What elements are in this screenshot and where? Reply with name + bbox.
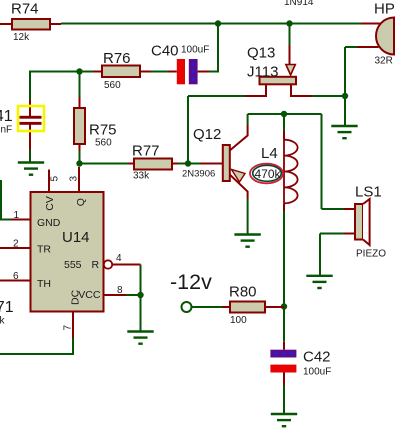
- svg-text:470k: 470k: [255, 167, 282, 181]
- svg-text:100uF: 100uF: [303, 367, 331, 378]
- svg-text:VCC: VCC: [78, 289, 101, 301]
- svg-text:Q: Q: [75, 198, 87, 206]
- svg-text:R76: R76: [103, 50, 131, 67]
- svg-text:R80: R80: [229, 284, 257, 301]
- svg-text:CV: CV: [44, 196, 56, 211]
- svg-text:R77: R77: [132, 143, 160, 160]
- svg-text:12k: 12k: [13, 32, 30, 43]
- svg-text:HP: HP: [374, 1, 395, 18]
- svg-text:3: 3: [69, 176, 80, 182]
- svg-text:TR: TR: [37, 244, 51, 256]
- svg-text:2: 2: [13, 239, 19, 250]
- svg-text:R75: R75: [89, 122, 117, 139]
- svg-text:2N3906: 2N3906: [182, 169, 215, 180]
- svg-text:560: 560: [95, 138, 112, 149]
- svg-text:1: 1: [14, 210, 20, 221]
- svg-text:nF: nF: [1, 125, 13, 136]
- svg-text:GND: GND: [37, 217, 61, 229]
- svg-text:4: 4: [116, 253, 122, 264]
- svg-text:J113: J113: [247, 64, 278, 81]
- svg-text:PIEZO: PIEZO: [356, 249, 386, 260]
- svg-text:C41: C41: [0, 108, 13, 125]
- svg-text:TH: TH: [37, 278, 51, 290]
- svg-text:-12v: -12v: [170, 270, 212, 294]
- svg-text:Q13: Q13: [247, 45, 275, 62]
- svg-text:8: 8: [117, 285, 123, 296]
- svg-text:32R: 32R: [375, 56, 393, 67]
- svg-text:R: R: [92, 259, 100, 271]
- svg-text:555: 555: [64, 259, 82, 271]
- svg-text:U14: U14: [62, 229, 90, 246]
- svg-text:L4: L4: [261, 145, 278, 162]
- svg-text:C42: C42: [303, 349, 331, 366]
- svg-text:560: 560: [104, 80, 121, 91]
- svg-text:100: 100: [230, 315, 247, 326]
- svg-text:R74: R74: [11, 1, 39, 18]
- svg-text:7: 7: [63, 325, 74, 331]
- svg-text:LS1: LS1: [355, 184, 382, 201]
- svg-text:6: 6: [13, 271, 19, 282]
- svg-text:33k: 33k: [133, 171, 150, 182]
- svg-text:C40: C40: [151, 43, 179, 60]
- svg-text:100uF: 100uF: [181, 45, 209, 56]
- svg-text:5: 5: [50, 176, 61, 182]
- svg-text:R71: R71: [0, 299, 14, 316]
- svg-text:DC: DC: [69, 289, 81, 305]
- svg-text:Q12: Q12: [193, 126, 221, 143]
- svg-text:k: k: [0, 316, 6, 327]
- svg-text:1N914: 1N914: [284, 0, 314, 8]
